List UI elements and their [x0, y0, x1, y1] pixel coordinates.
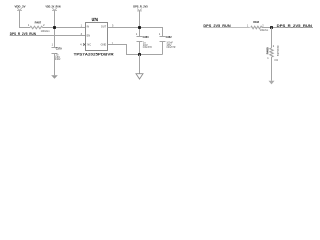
svg-text:EN: EN	[87, 35, 91, 38]
wire flag down through junction to C380	[139, 11, 141, 37]
junction B	[138, 26, 141, 29]
power flag VDD_3V_RUN	[46, 4, 62, 10]
wire EN	[10, 35, 86, 37]
svg-text:DPS_R_2V5_RUN: DPS_R_2V5_RUN	[277, 24, 313, 28]
wire R487 to U74 IN	[42, 27, 85, 29]
svg-text:C0G/X7R: C0G/X7R	[166, 45, 175, 49]
svg-text:100ohm: 100ohm	[260, 28, 268, 32]
junction D	[270, 26, 273, 29]
power flag VDD_3V	[15, 4, 27, 10]
wire VDD_3V_RUN down to junction and C379	[54, 10, 56, 47]
wire label to R498	[203, 27, 249, 29]
wire C380 to bus	[139, 42, 141, 55]
wire VDD_3V down and to R487	[20, 10, 31, 27]
svg-text:0402: 0402	[55, 57, 61, 61]
svg-text:R487: R487	[35, 20, 42, 24]
resistor R499	[265, 45, 279, 62]
resistor R498	[247, 20, 268, 32]
svg-text:R498: R498	[253, 20, 259, 24]
capacitor C382	[159, 33, 176, 49]
svg-text:GND: GND	[101, 43, 107, 46]
junction C	[138, 53, 141, 56]
svg-text:TPS7A2025PDBVR: TPS7A2025PDBVR	[74, 52, 114, 57]
ground (left)	[51, 75, 58, 79]
svg-text:C382: C382	[166, 35, 172, 39]
svg-text:NC: NC	[87, 43, 91, 46]
capacitor C380	[136, 33, 152, 49]
power flag DPS_R_2V5	[133, 4, 148, 11]
svg-text:IN: IN	[87, 25, 90, 28]
wire junction down to R499	[271, 28, 273, 49]
svg-text:DPS_R_2V5: DPS_R_2V5	[133, 4, 148, 8]
ground (middle)	[136, 74, 143, 79]
wire C379 to ground	[54, 54, 56, 76]
ground (right)	[269, 81, 275, 85]
wire R498 to junction and right label	[262, 27, 313, 29]
wire R499 to ground	[271, 57, 273, 81]
svg-text:C0G/X7R: C0G/X7R	[143, 45, 152, 49]
svg-text:100ohm: 100ohm	[41, 29, 50, 33]
capacitor C379	[52, 44, 63, 62]
IC U74 body	[74, 17, 114, 57]
resistor R487	[28, 20, 50, 32]
svg-text:VDD_3V: VDD_3V	[15, 4, 27, 8]
svg-text:R499: R499	[265, 47, 269, 55]
svg-text:OUT: OUT	[101, 25, 107, 28]
svg-text:VDD_3V_RUN: VDD_3V_RUN	[46, 4, 62, 8]
junction A	[53, 26, 56, 29]
svg-text:C380: C380	[143, 35, 149, 39]
svg-text:C379: C379	[56, 46, 62, 50]
wire OUT to cap C382 corner	[108, 28, 163, 37]
wire C382 to bus	[162, 42, 164, 55]
svg-text:49.9Kohm: 49.9Kohm	[276, 45, 280, 56]
svg-text:U74: U74	[92, 17, 98, 22]
wire GND pin to bus	[108, 45, 163, 55]
wire bus junction down to middle ground	[139, 55, 141, 74]
